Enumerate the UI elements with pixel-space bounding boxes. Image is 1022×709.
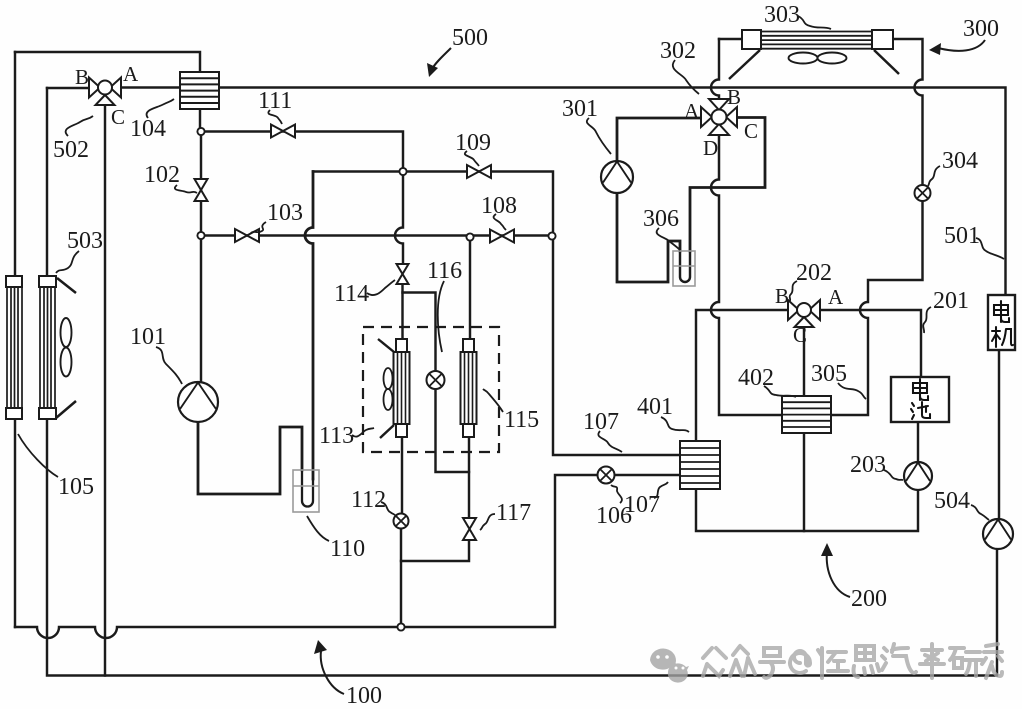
svg-text:107: 107 xyxy=(583,409,619,435)
svg-text:305: 305 xyxy=(811,361,847,387)
svg-text:103: 103 xyxy=(267,200,303,226)
svg-text:104: 104 xyxy=(130,116,166,142)
svg-text:401: 401 xyxy=(637,394,673,420)
svg-text:B: B xyxy=(775,284,789,308)
svg-text:109: 109 xyxy=(455,130,491,156)
svg-text:111: 111 xyxy=(258,88,292,114)
svg-text:502: 502 xyxy=(53,137,89,163)
svg-text:B: B xyxy=(727,85,741,109)
svg-text:501: 501 xyxy=(944,223,980,249)
svg-text:C: C xyxy=(793,323,807,347)
svg-text:114: 114 xyxy=(334,281,369,307)
svg-text:202: 202 xyxy=(796,260,832,286)
svg-text:200: 200 xyxy=(851,586,887,612)
svg-text:A: A xyxy=(684,99,700,123)
svg-text:B: B xyxy=(75,65,89,89)
svg-text:117: 117 xyxy=(496,500,531,526)
svg-text:112: 112 xyxy=(351,487,386,513)
svg-text:303: 303 xyxy=(764,2,800,28)
svg-text:306: 306 xyxy=(643,206,679,232)
svg-text:108: 108 xyxy=(481,193,517,219)
svg-text:D: D xyxy=(703,136,718,160)
svg-text:116: 116 xyxy=(427,258,462,284)
svg-text:113: 113 xyxy=(319,423,354,449)
svg-text:107: 107 xyxy=(624,492,660,518)
svg-text:C: C xyxy=(111,105,125,129)
svg-text:503: 503 xyxy=(67,228,103,254)
svg-text:500: 500 xyxy=(452,25,488,51)
svg-text:301: 301 xyxy=(562,96,598,122)
svg-text:100: 100 xyxy=(346,683,382,709)
svg-text:201: 201 xyxy=(933,288,969,314)
svg-text:115: 115 xyxy=(504,407,539,433)
svg-text:203: 203 xyxy=(850,452,886,478)
svg-text:101: 101 xyxy=(130,324,166,350)
svg-text:A: A xyxy=(828,285,844,309)
svg-text:504: 504 xyxy=(934,488,970,514)
svg-text:102: 102 xyxy=(144,162,180,188)
svg-text:402: 402 xyxy=(738,365,774,391)
svg-text:105: 105 xyxy=(58,474,94,500)
svg-text:C: C xyxy=(744,119,758,143)
svg-text:A: A xyxy=(123,62,139,86)
svg-text:300: 300 xyxy=(963,16,999,42)
svg-text:110: 110 xyxy=(330,536,365,562)
svg-text:304: 304 xyxy=(942,148,978,174)
svg-text:302: 302 xyxy=(660,38,696,64)
